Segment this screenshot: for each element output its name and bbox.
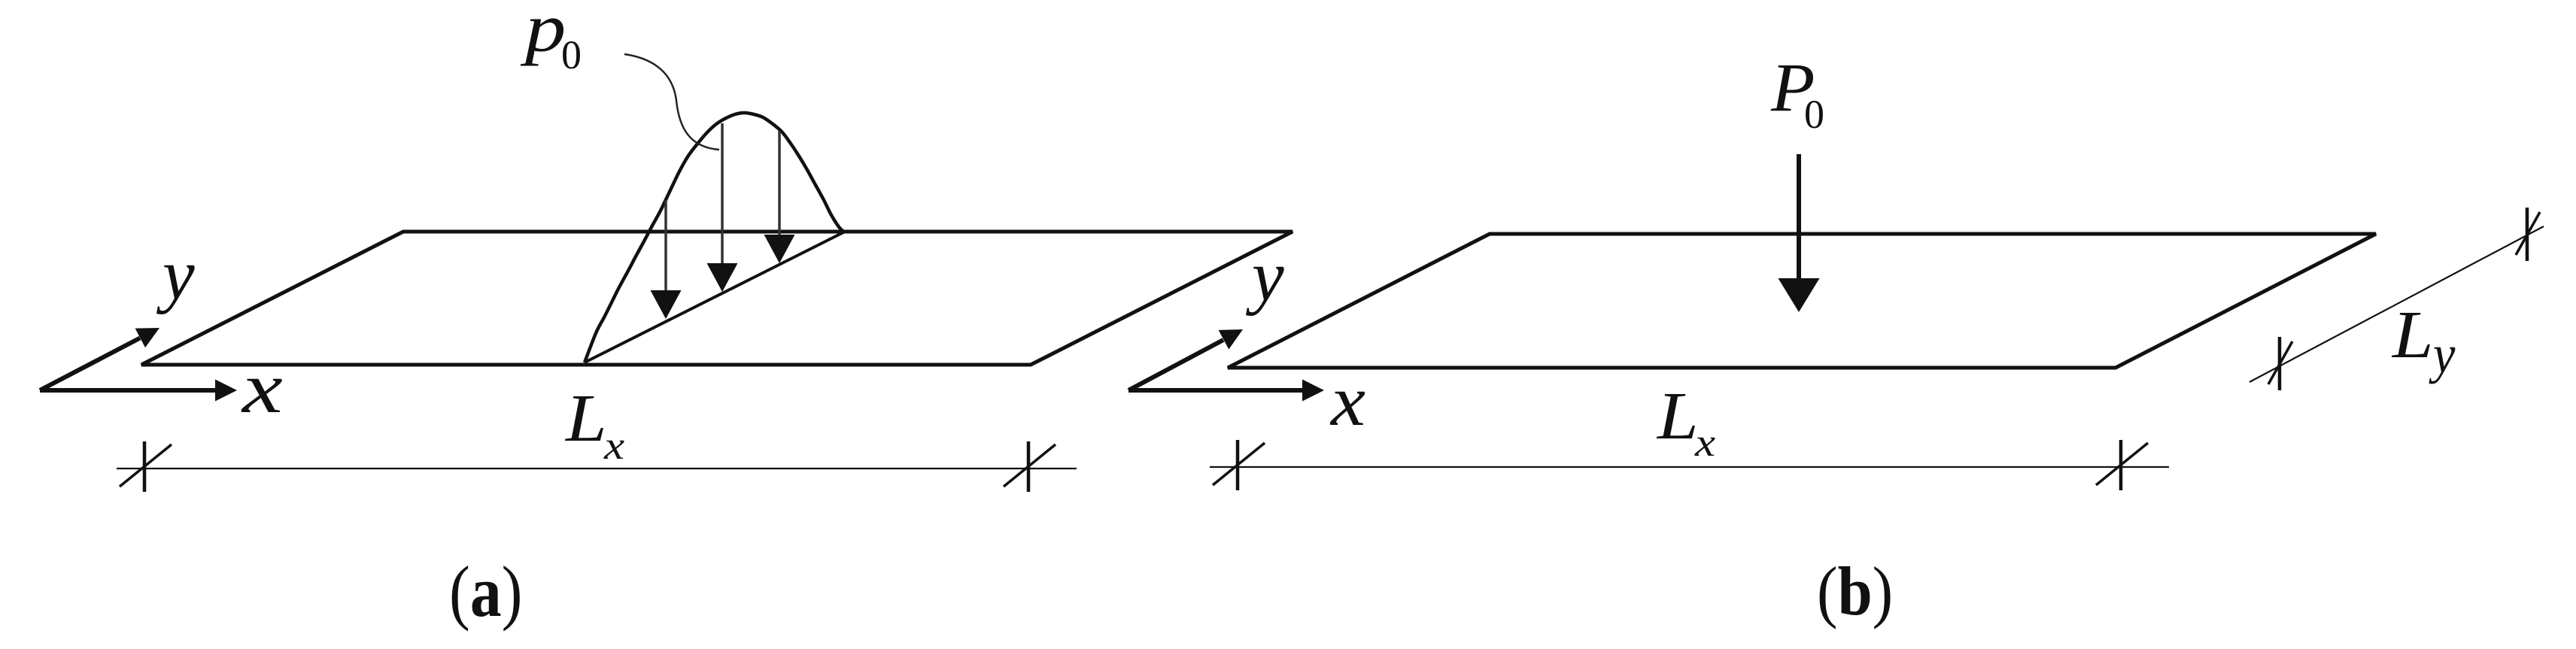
svg-text:x: x xyxy=(1329,360,1365,441)
svg-text:(a): (a) xyxy=(449,553,522,632)
svg-text:x: x xyxy=(1694,421,1715,465)
svg-text:L: L xyxy=(1656,379,1699,453)
svg-text:x: x xyxy=(241,348,283,428)
svg-text:y: y xyxy=(2429,323,2455,384)
svg-text:L: L xyxy=(564,381,607,456)
svg-text:p: p xyxy=(521,0,567,66)
svg-text:L: L xyxy=(2391,298,2434,372)
svg-text:0: 0 xyxy=(561,32,582,77)
svg-text:x: x xyxy=(603,424,624,468)
svg-text:(b): (b) xyxy=(1817,553,1893,629)
svg-text:0: 0 xyxy=(1804,92,1824,137)
